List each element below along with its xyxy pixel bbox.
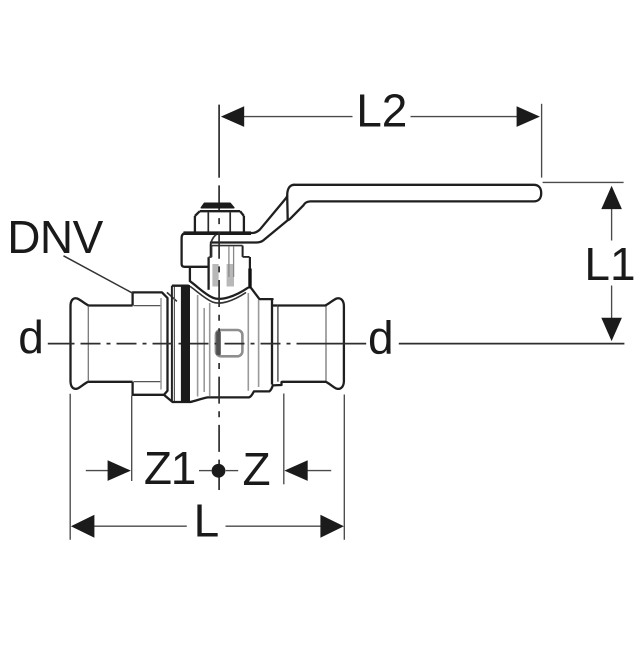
nut internal thin lines [134,305,162,307]
svg-text:d: d [18,311,44,363]
svg-text:DNV: DNV [7,211,103,263]
stem hex nut [200,210,240,212]
body bottom silhouette [190,382,281,402]
ball square window on body [216,330,243,356]
body neck edge under bracket [189,267,191,282]
svg-text:L1: L1 [584,238,635,290]
bracket left block [182,233,209,267]
Z1 extension line [131,396,133,482]
bracket inner wrap arc [211,235,216,243]
body top dome curves [191,282,248,299]
collar (body left flange) [171,286,173,402]
horizontal centerline (d axis) [48,343,71,345]
union nut of valve (left) [131,293,133,306]
right socket tube [278,304,326,306]
Z1/Z node dot [212,464,226,478]
L2 dimension [244,116,353,118]
stem housing [207,257,209,290]
L right extension line [343,395,345,540]
Z1 / Z dimension [86,470,108,472]
left press bead [71,298,89,389]
handle lever bar [288,185,542,220]
L dimension [94,525,187,527]
DNV leader line [64,256,133,293]
stem housing interior shading [212,264,218,287]
collar dark band [181,285,190,402]
stem top cap (black) [201,203,234,208]
svg-text:L: L [194,494,220,546]
body right chamfer and step [251,288,272,299]
handle arm lower edge to plate bottom [211,220,288,242]
bracket plate thick top edge [184,231,252,235]
vertical stem axis centerline [218,105,220,178]
L left extension line [69,394,71,540]
Z extension line [283,394,285,485]
left bead/socket junction line [87,306,89,382]
right press bead [326,298,344,389]
svg-text:Z1: Z1 [144,442,195,494]
L2 right extension line [541,104,543,178]
handle bend face [287,185,294,220]
square left dark band [216,332,221,355]
right bead/socket junction line [325,306,327,382]
svg-text:Z: Z [243,443,271,495]
handle arm upper edge to plate top [186,196,287,233]
left socket tube [89,304,133,306]
L1 dimension [543,181,624,183]
svg-text:d: d [368,312,394,364]
body internal gray verticals [197,295,199,397]
svg-text:L2: L2 [356,85,407,137]
